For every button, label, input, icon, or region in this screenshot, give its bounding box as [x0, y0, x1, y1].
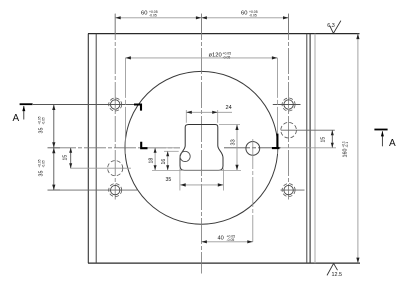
dim 18 arrows — [154, 148, 157, 171]
dim 15 right row extension at 147.8 — [281, 147, 336, 149]
hole row line y=104.5 right — [273, 104, 301, 106]
svg-text:33: 33 — [230, 139, 236, 145]
hole row line y=190.1 left — [54, 189, 137, 191]
bold corner mark left-center — [141, 142, 147, 148]
feature small corner circle — [180, 151, 190, 161]
threaded hole right top inner — [284, 100, 293, 109]
dim 24 line — [186, 111, 232, 113]
threaded hole left bottom outer dashed — [109, 184, 122, 197]
dim 24 extensions — [186, 110, 217, 123]
threaded hole right bottom outer dashed — [282, 184, 295, 197]
dim ø120 arrows — [125, 56, 277, 59]
bold corner mark right-center — [272, 134, 280, 149]
svg-text:15: 15 — [321, 137, 327, 143]
svg-text:35: 35 — [166, 177, 172, 183]
svg-text:15: 15 — [63, 155, 69, 161]
dim 35 bottom extensions — [180, 169, 224, 191]
svg-text:35: 35 — [39, 171, 45, 177]
svg-text:-0.05: -0.05 — [249, 13, 257, 17]
dim 35 bottom line — [180, 184, 223, 186]
dim ø120 extension right — [276, 58, 278, 154]
dim 40 line — [201, 241, 252, 243]
chain arrows — [52, 105, 55, 191]
dim 35/35 chain line — [53, 105, 55, 191]
svg-text:-0.1: -0.1 — [345, 142, 349, 148]
svg-text:6.3: 6.3 — [327, 23, 335, 29]
feature bottom extension line — [152, 169, 241, 171]
big circle ø120 — [125, 71, 278, 224]
svg-text:A: A — [13, 113, 20, 124]
plate left edge — [87, 34, 89, 264]
svg-text:-0.05: -0.05 — [223, 55, 231, 59]
hole row line y=130.2 right — [281, 129, 335, 131]
svg-text:60: 60 — [141, 11, 147, 17]
bold corner mark top-left — [134, 105, 141, 111]
plate top edge — [88, 33, 360, 35]
plate right gray face line — [314, 34, 316, 264]
dim ø120 extension left — [124, 58, 126, 154]
svg-text:A: A — [389, 138, 396, 149]
vertical centerline right hole column — [288, 14, 290, 200]
svg-text:-0.05: -0.05 — [41, 117, 45, 124]
threaded hole right top outer dashed — [282, 98, 295, 111]
section marker A right: bar — [374, 129, 387, 131]
svg-text:18: 18 — [148, 158, 154, 164]
dim 60 arrows — [115, 16, 288, 19]
hole row line y=190.1 right — [281, 189, 305, 191]
dim 15 right arrows — [331, 130, 334, 148]
section marker A left: arrowhead — [22, 106, 25, 112]
svg-text:24: 24 — [226, 105, 232, 111]
horizontal centerline — [54, 147, 180, 149]
dim 16 arrows — [166, 151, 169, 170]
vertical centerline plate middle — [200, 14, 202, 274]
dim 33 arrows — [235, 125, 238, 171]
dim 33 top extension — [219, 124, 240, 126]
svg-text:160: 160 — [343, 149, 349, 158]
threaded hole M? left top inner — [111, 100, 120, 109]
center-right hole — [246, 142, 260, 156]
plate right edge — [309, 34, 311, 264]
feature flare-level extension line left — [144, 147, 180, 149]
threaded hole right bottom inner — [284, 185, 293, 194]
surface finish symbol bottom 12.5 — [327, 263, 338, 275]
surface finish symbol top 6.3 — [330, 21, 341, 34]
svg-text:-0.05: -0.05 — [41, 160, 45, 167]
svg-text:12.5: 12.5 — [332, 272, 343, 278]
dim 35 bottom arrows — [180, 183, 223, 186]
section marker A left: arrow line — [23, 106, 25, 120]
section marker A right: arrow line — [381, 131, 383, 146]
dim 60 extension solid segments — [115, 14, 288, 34]
dim 15 right line — [331, 130, 333, 148]
svg-text:40: 40 — [218, 236, 224, 242]
dim 160 arrows — [356, 34, 359, 264]
svg-text:60: 60 — [241, 11, 247, 17]
plate right inner step line — [306, 34, 308, 264]
section marker A right: arrowhead — [381, 131, 384, 137]
dim ø120 line — [125, 57, 277, 59]
svg-text:16: 16 — [161, 159, 167, 165]
hole right middle dashed — [281, 122, 297, 138]
threaded hole left bottom inner — [111, 185, 120, 194]
dim 24 arrows — [186, 111, 217, 114]
dim 18 line — [154, 148, 156, 171]
hole row line y=168.2 left — [70, 167, 131, 169]
vertical centerline left hole column — [114, 14, 116, 200]
center-right hole vertical centerline — [252, 139, 254, 242]
keyhole feature outline — [180, 125, 223, 171]
dim 15 left line — [70, 148, 72, 168]
dim 15 left arrows — [69, 148, 72, 168]
dim 60 left segment line — [115, 17, 288, 19]
svg-text:-0.05: -0.05 — [149, 13, 157, 17]
chain ticks — [48, 105, 65, 191]
hole row line y=104.5 left — [33, 104, 142, 106]
dim 33 line — [236, 125, 238, 171]
svg-text:ø120: ø120 — [209, 53, 222, 59]
plate left inner step line — [95, 34, 97, 264]
dim 40 arrows — [201, 240, 252, 243]
small circle top tangent extension — [164, 150, 179, 152]
section marker A left: bar — [20, 103, 33, 105]
svg-text:35: 35 — [39, 128, 45, 134]
dim 16 line — [167, 151, 169, 170]
threaded hole left top outer dashed — [109, 98, 122, 111]
plate bottom edge — [88, 262, 360, 264]
hole left middle dashed — [108, 161, 123, 176]
svg-text:-0.05: -0.05 — [227, 238, 235, 242]
dim 160 line right — [357, 34, 359, 264]
